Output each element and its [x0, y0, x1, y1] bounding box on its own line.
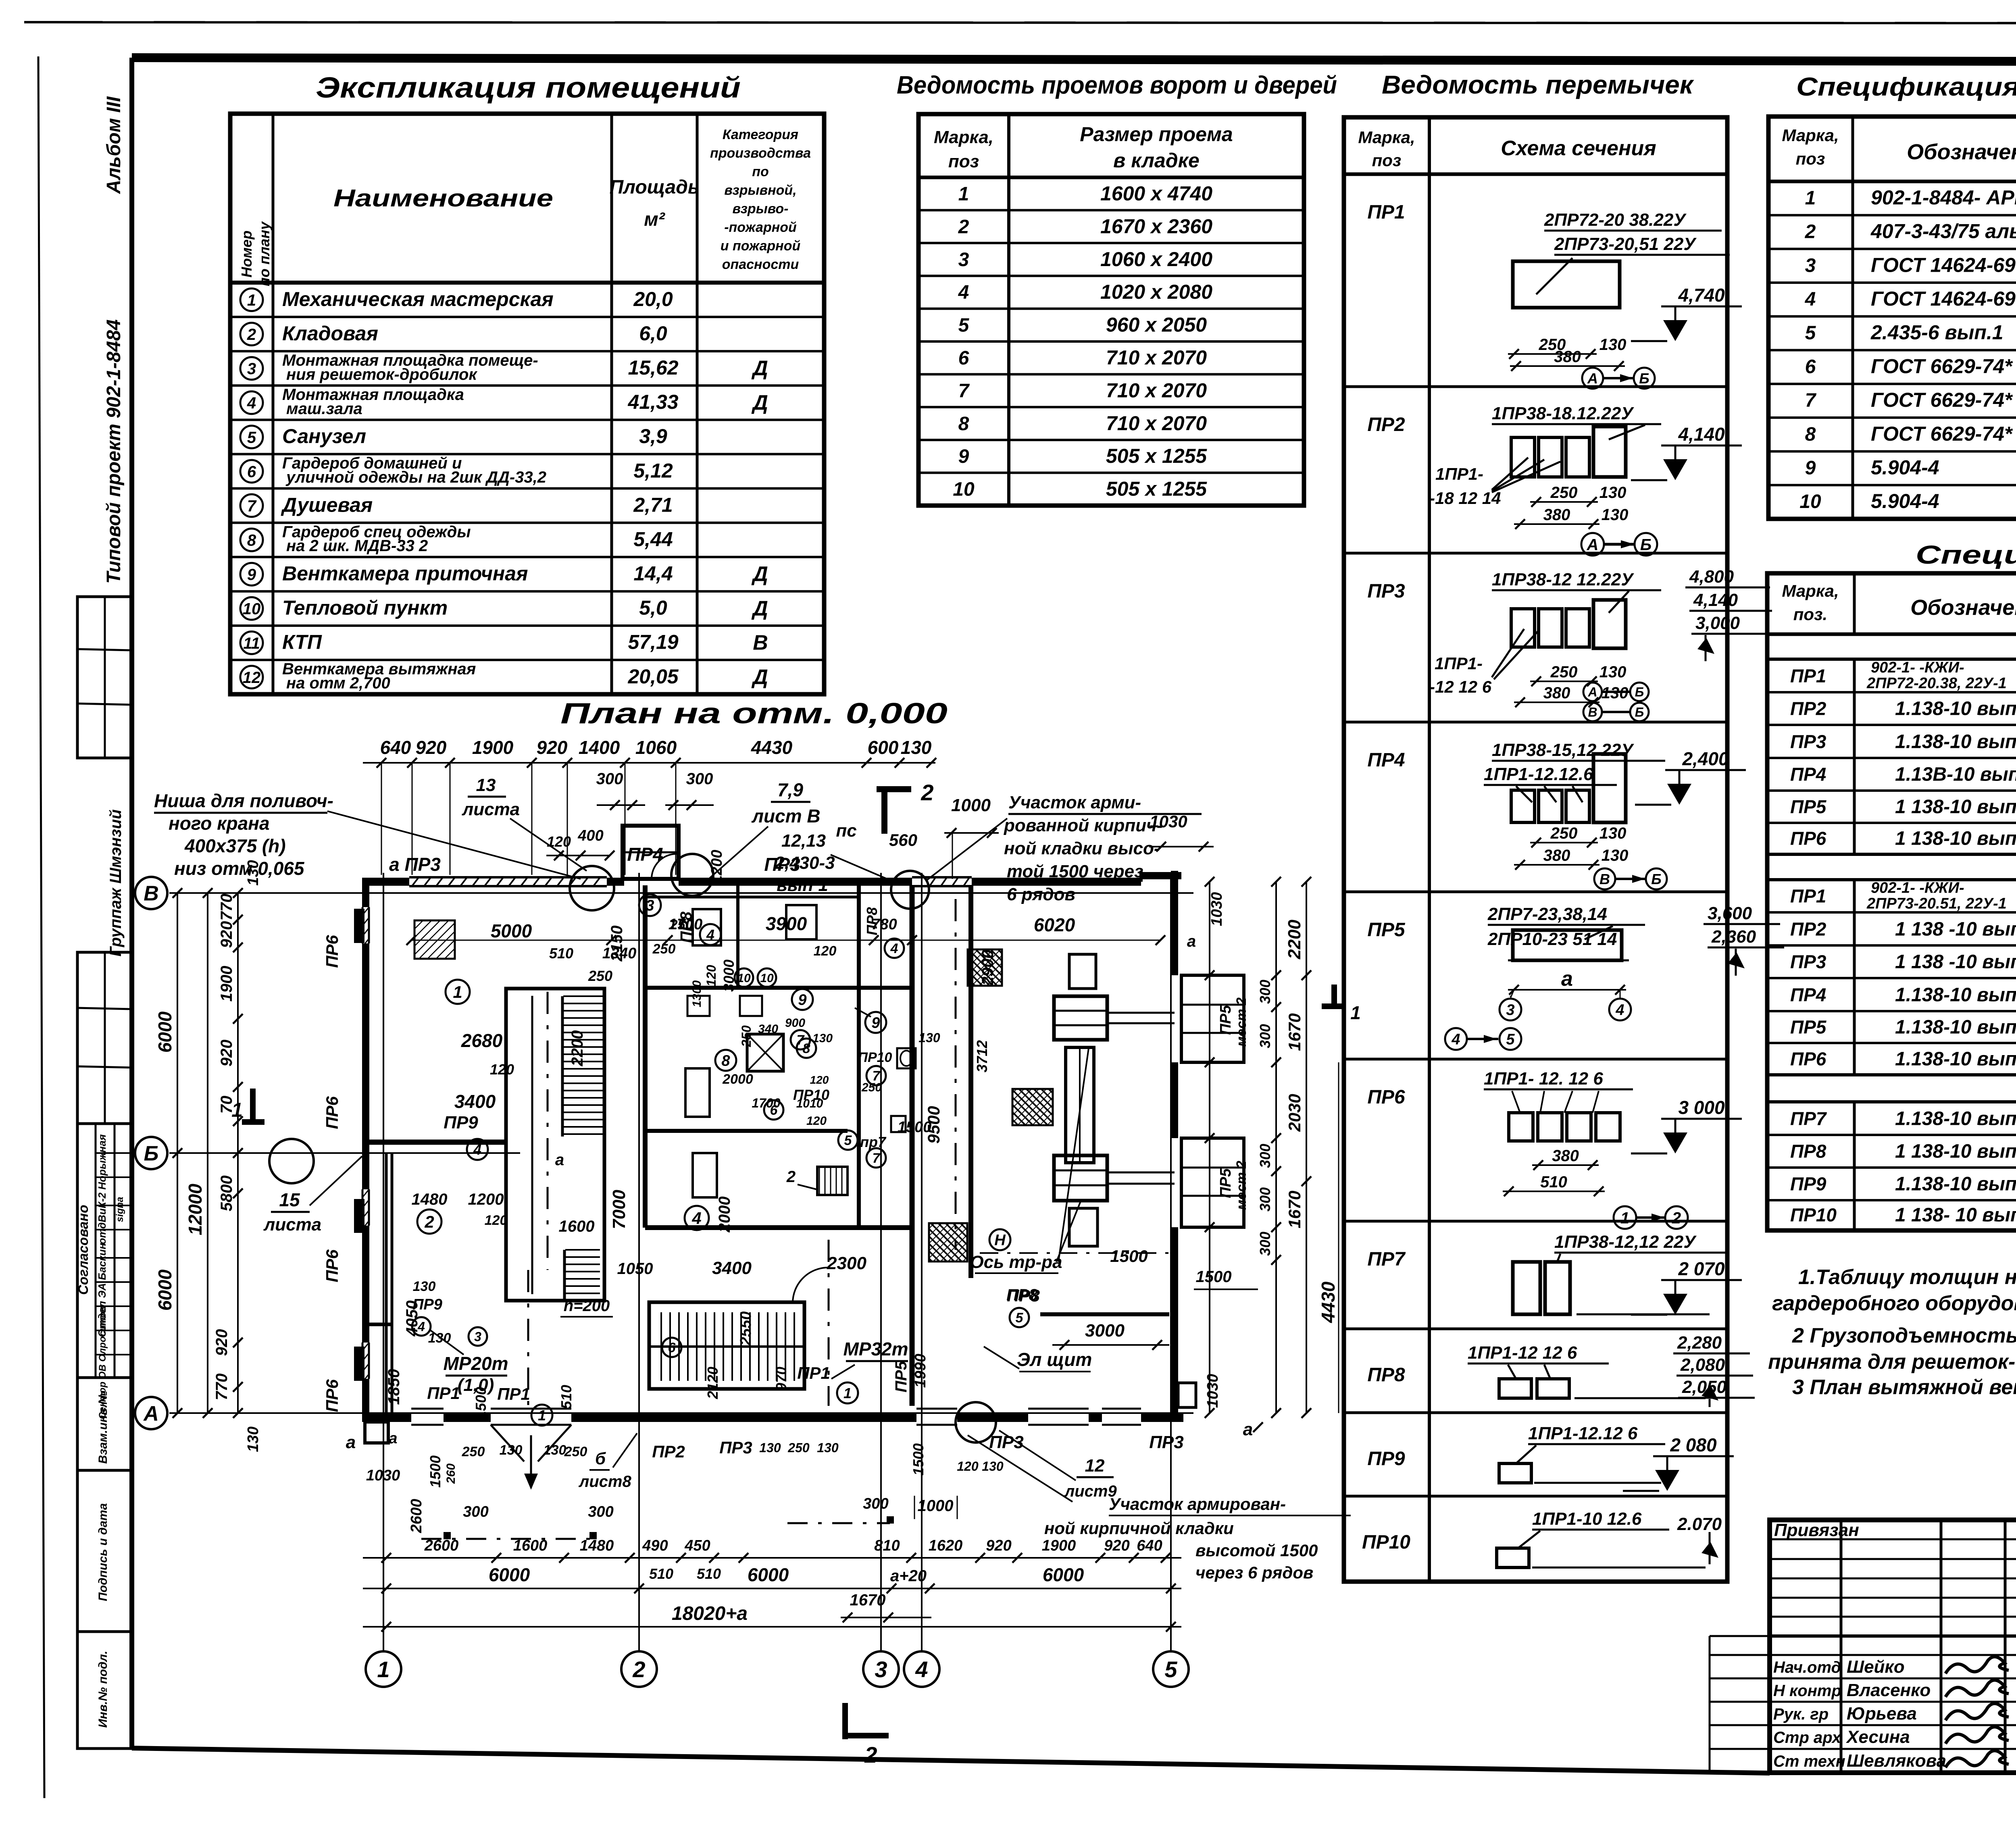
svg-text:12000: 12000 — [185, 1184, 206, 1235]
svg-text:поз.: поз. — [1793, 605, 1827, 624]
svg-text:2 Грузоподъемность монорельса,: 2 Грузоподъемность монорельса, обозначен… — [1792, 1324, 2016, 1347]
svg-text:Номер: Номер — [238, 231, 255, 278]
svg-text:ПР2: ПР2 — [652, 1442, 685, 1461]
svg-text:6000: 6000 — [489, 1564, 530, 1585]
svg-text:КТП: КТП — [282, 631, 322, 654]
svg-text:250: 250 — [1550, 824, 1578, 842]
svg-text:1500: 1500 — [427, 1455, 444, 1488]
svg-text:1: 1 — [377, 1657, 389, 1682]
svg-text:взрыво-: взрыво- — [732, 201, 788, 216]
svg-text:h=200: h=200 — [564, 1297, 610, 1315]
svg-text:Ведомость перемычек: Ведомость перемычек — [1382, 70, 1695, 99]
svg-text:1ПР38-12 12.22У: 1ПР38-12 12.22У — [1492, 570, 1634, 589]
svg-text:Б: Б — [1635, 685, 1644, 699]
svg-text:ПР9: ПР9 — [444, 1113, 478, 1132]
svg-text:1340: 1340 — [602, 945, 637, 962]
svg-text:поз: поз — [948, 152, 979, 171]
svg-text:Спецификация перемычек: Спецификация перемычек — [1916, 540, 2016, 569]
svg-text:20,0: 20,0 — [633, 288, 673, 310]
svg-text:ПР1: ПР1 — [1367, 202, 1405, 223]
svg-text:ПР9: ПР9 — [412, 1296, 442, 1313]
svg-text:Эл щит: Эл щит — [1017, 1349, 1092, 1370]
svg-text:41,33: 41,33 — [627, 391, 678, 413]
svg-text:2680: 2680 — [461, 1030, 503, 1051]
svg-text:1480: 1480 — [412, 1191, 448, 1208]
svg-text:1.138-10 вып.1: 1.138-10 вып.1 — [1895, 731, 2016, 752]
svg-text:1.138-10 вып.1: 1.138-10 вып.1 — [1895, 1048, 2016, 1070]
svg-text:ПР5: ПР5 — [1217, 1005, 1234, 1035]
svg-text:Участок арми-: Участок арми- — [1008, 793, 1141, 812]
svg-text:250: 250 — [564, 1444, 587, 1459]
svg-text:4: 4 — [417, 1320, 425, 1334]
svg-text:510: 510 — [1540, 1173, 1567, 1191]
svg-text:ПР4: ПР4 — [1367, 749, 1405, 771]
svg-text:ПР7: ПР7 — [1790, 1108, 1827, 1129]
svg-text:мест 2: мест 2 — [1234, 997, 1249, 1047]
svg-text:2ПР7-23,38,14: 2ПР7-23,38,14 — [1487, 904, 1607, 924]
svg-text:8: 8 — [721, 1053, 730, 1070]
svg-text:3,600: 3,600 — [1708, 903, 1752, 923]
svg-text:1: 1 — [843, 1385, 852, 1401]
svg-text:2,400: 2,400 — [1682, 748, 1729, 769]
svg-text:ПР3: ПР3 — [1790, 951, 1826, 972]
svg-text:Венткамера приточная: Венткамера приточная — [282, 562, 528, 585]
svg-text:1ПР1-12.12.6: 1ПР1-12.12.6 — [1484, 764, 1593, 784]
svg-text:3: 3 — [958, 249, 969, 271]
svg-text:1900: 1900 — [218, 966, 235, 1002]
svg-text:ПР9: ПР9 — [1790, 1174, 1826, 1195]
svg-text:6000: 6000 — [154, 1269, 175, 1311]
svg-text:Привязан: Привязан — [1774, 1520, 1859, 1540]
svg-text:уличной одежды на 2шк ДД-33,2: уличной одежды на 2шк ДД-33,2 — [285, 468, 546, 486]
svg-text:560: 560 — [889, 831, 917, 849]
svg-text:2: 2 — [864, 1742, 877, 1767]
svg-text:640: 640 — [1137, 1537, 1162, 1554]
svg-text:Инв.№ подл.: Инв.№ подл. — [96, 1651, 110, 1728]
svg-text:9: 9 — [958, 446, 969, 467]
svg-text:9: 9 — [247, 566, 256, 584]
svg-text:2200: 2200 — [569, 1030, 586, 1067]
svg-text:5: 5 — [1805, 323, 1816, 344]
svg-text:902-1-8484- АРИ-НД-1: 902-1-8484- АРИ-НД-1 — [1871, 186, 2016, 209]
svg-text:970: 970 — [773, 1367, 789, 1391]
svg-text:м²: м² — [644, 209, 666, 230]
svg-text:1900: 1900 — [1042, 1537, 1076, 1554]
svg-text:низ отм 0,065: низ отм 0,065 — [174, 858, 305, 879]
svg-text:11: 11 — [243, 635, 260, 652]
svg-text:450: 450 — [684, 1537, 710, 1554]
svg-text:3,9: 3,9 — [639, 425, 667, 448]
svg-text:130: 130 — [817, 1440, 839, 1455]
svg-text:2 070: 2 070 — [1678, 1258, 1725, 1279]
svg-text:4: 4 — [890, 941, 898, 956]
svg-text:Ось тр-ра: Ось тр-ра — [970, 1252, 1062, 1272]
svg-text:250: 250 — [670, 917, 693, 933]
svg-text:1: 1 — [231, 1099, 243, 1121]
svg-text:770: 770 — [213, 1374, 231, 1401]
svg-text:400х375 (h): 400х375 (h) — [184, 835, 286, 856]
svg-text:1000: 1000 — [918, 1497, 954, 1515]
svg-text:1050: 1050 — [617, 1260, 653, 1278]
svg-text:5: 5 — [247, 429, 256, 446]
svg-text:6000: 6000 — [748, 1564, 789, 1585]
svg-text:той 1500 через: той 1500 через — [1007, 862, 1143, 881]
svg-text:поз: поз — [1372, 151, 1402, 170]
svg-text:2: 2 — [424, 1212, 434, 1231]
svg-text:1600: 1600 — [513, 1537, 548, 1554]
svg-text:ПР5: ПР5 — [1217, 1168, 1234, 1198]
svg-text:1ПР1-12 12 6: 1ПР1-12 12 6 — [1468, 1343, 1577, 1363]
svg-text:Марка,: Марка, — [1782, 581, 1839, 600]
svg-text:3400: 3400 — [712, 1258, 752, 1278]
svg-text:120: 120 — [814, 943, 837, 959]
svg-text:130: 130 — [759, 1440, 781, 1455]
svg-text:18020+а: 18020+а — [672, 1603, 748, 1624]
svg-text:5.904-4: 5.904-4 — [1871, 456, 1939, 479]
svg-text:2030: 2030 — [1285, 1094, 1304, 1132]
svg-text:1500: 1500 — [473, 1387, 489, 1419]
svg-text:на отм 2,700: на отм 2,700 — [286, 674, 390, 692]
svg-text:ПР10: ПР10 — [1790, 1205, 1837, 1226]
svg-text:250: 250 — [1550, 484, 1578, 502]
svg-text:510: 510 — [549, 945, 573, 962]
svg-text:В: В — [753, 631, 768, 654]
svg-text:505 х 1255: 505 х 1255 — [1106, 478, 1207, 500]
svg-text:1: 1 — [1620, 1209, 1629, 1227]
svg-text:3900: 3900 — [766, 913, 807, 934]
svg-text:Марка,: Марка, — [1358, 128, 1415, 147]
svg-text:4: 4 — [915, 1657, 928, 1682]
svg-text:листа: листа — [263, 1215, 321, 1234]
svg-text:производства: производства — [710, 146, 811, 161]
svg-text:Б: Б — [1640, 536, 1652, 554]
svg-text:ПР7: ПР7 — [1367, 1249, 1406, 1270]
svg-text:1600: 1600 — [559, 1218, 595, 1235]
svg-text:7: 7 — [873, 1151, 881, 1166]
svg-text:407-3-43/75 альб. III: 407-3-43/75 альб. III — [1870, 220, 2016, 243]
svg-text:МР20т: МР20т — [443, 1353, 508, 1374]
svg-text:12,13: 12,13 — [781, 831, 826, 851]
svg-text:130: 130 — [1602, 847, 1629, 864]
svg-text:380: 380 — [1543, 506, 1570, 524]
svg-text:Ниша для поливоч-: Ниша для поливоч- — [154, 790, 333, 811]
svg-text:1600 х 4740: 1600 х 4740 — [1100, 182, 1212, 205]
svg-text:2ПР72-20.38, 22У-1: 2ПР72-20.38, 22У-1 — [1866, 675, 2007, 692]
svg-text:1ПР38-12,12 22У: 1ПР38-12,12 22У — [1554, 1232, 1697, 1252]
svg-text:3: 3 — [875, 1657, 887, 1682]
svg-text:300: 300 — [1257, 1144, 1273, 1168]
svg-text:Марка,: Марка, — [934, 127, 993, 147]
svg-text:920: 920 — [1104, 1537, 1129, 1554]
svg-text:2000: 2000 — [722, 1072, 753, 1087]
svg-text:3712: 3712 — [974, 1040, 990, 1072]
svg-text:1 138-10 вып 1: 1 138-10 вып 1 — [1895, 828, 2016, 849]
svg-text:1: 1 — [1805, 187, 1816, 209]
svg-text:1620: 1620 — [929, 1537, 963, 1554]
svg-text:Власенко: Власенко — [1847, 1680, 1931, 1700]
svg-text:ПР6: ПР6 — [323, 935, 342, 968]
svg-text:3: 3 — [1506, 1002, 1514, 1019]
svg-text:ПР8: ПР8 — [1006, 1286, 1038, 1304]
svg-text:340: 340 — [758, 1022, 778, 1036]
svg-text:1: 1 — [1350, 1002, 1361, 1023]
svg-text:ПР4: ПР4 — [1790, 764, 1826, 785]
svg-text:ПР3: ПР3 — [1149, 1432, 1183, 1452]
svg-text:10: 10 — [953, 479, 975, 500]
svg-text:400: 400 — [577, 827, 603, 844]
svg-text:ПР10: ПР10 — [1362, 1532, 1410, 1553]
svg-text:мест 2: мест 2 — [1234, 1161, 1249, 1210]
svg-text:380: 380 — [1543, 847, 1570, 864]
svg-text:Марка,: Марка, — [1782, 126, 1839, 145]
svg-text:300: 300 — [588, 1503, 613, 1520]
svg-text:2300: 2300 — [827, 1253, 866, 1273]
svg-text:1300: 1300 — [690, 980, 704, 1007]
svg-text:ГОСТ 6629-74*: ГОСТ 6629-74* — [1871, 423, 2013, 445]
svg-text:2550: 2550 — [737, 1311, 754, 1346]
svg-text:ПР1: ПР1 — [1790, 886, 1826, 907]
svg-text:2: 2 — [958, 216, 969, 237]
svg-text:ПР5: ПР5 — [1790, 796, 1827, 817]
svg-text:маш.зала: маш.зала — [286, 400, 362, 418]
svg-text:130: 130 — [1599, 663, 1627, 681]
svg-text:120: 120 — [547, 833, 571, 850]
svg-text:2,71: 2,71 — [633, 493, 673, 516]
svg-text:ной кирпичной кладки: ной кирпичной кладки — [1044, 1519, 1234, 1538]
svg-text:6000: 6000 — [1043, 1564, 1084, 1585]
svg-text:1030: 1030 — [1204, 1374, 1221, 1408]
svg-text:12: 12 — [1085, 1456, 1105, 1476]
svg-text:ПР3: ПР3 — [1367, 581, 1405, 602]
svg-text:В: В — [1588, 705, 1597, 720]
svg-text:6: 6 — [958, 348, 969, 369]
svg-text:В: В — [1599, 871, 1610, 887]
svg-text:130: 130 — [500, 1443, 523, 1458]
svg-text:ПР9: ПР9 — [1367, 1448, 1405, 1470]
svg-text:Н контр: Н контр — [1773, 1682, 1841, 1700]
svg-text:пс: пс — [836, 821, 856, 841]
svg-text:920: 920 — [986, 1537, 1011, 1554]
svg-text:А: А — [143, 1402, 159, 1426]
svg-text:2: 2 — [632, 1657, 645, 1682]
svg-text:взрывной,: взрывной, — [724, 183, 796, 198]
svg-text:1ПР38-18.12.22У: 1ПР38-18.12.22У — [1492, 404, 1634, 423]
svg-text:ПР1: ПР1 — [427, 1384, 460, 1403]
svg-text:Ведомость проемов ворот и двер: Ведомость проемов ворот и дверей — [897, 71, 1337, 99]
svg-text:Группаж Шмэнзий: Группаж Шмэнзий — [107, 809, 125, 956]
svg-text:-12 12 6: -12 12 6 — [1429, 677, 1492, 696]
svg-text:15: 15 — [279, 1189, 300, 1210]
svg-text:Рук. гр: Рук. гр — [1773, 1705, 1829, 1723]
svg-text:4: 4 — [247, 394, 256, 412]
svg-text:3: 3 — [1805, 255, 1816, 276]
svg-text:5: 5 — [1506, 1031, 1515, 1048]
svg-text:250: 250 — [588, 968, 612, 984]
svg-text:2,280: 2,280 — [1677, 1333, 1722, 1353]
svg-text:а+20: а+20 — [890, 1567, 927, 1585]
svg-text:1: 1 — [538, 1407, 546, 1424]
svg-text:3 000: 3 000 — [1678, 1097, 1725, 1118]
svg-text:1500: 1500 — [1110, 1247, 1148, 1266]
svg-text:в кладке: в кладке — [1113, 149, 1200, 172]
svg-text:380: 380 — [1554, 348, 1581, 366]
svg-text:4430: 4430 — [1318, 1281, 1339, 1323]
svg-text:1.138-10 вып 2: 1.138-10 вып 2 — [1895, 1016, 2016, 1038]
svg-text:1ПР38-15,12 22У: 1ПР38-15,12 22У — [1492, 740, 1634, 760]
svg-text:2: 2 — [786, 1168, 796, 1186]
svg-text:5,12: 5,12 — [633, 459, 673, 482]
svg-text:6: 6 — [668, 1340, 676, 1355]
svg-text:ПР6: ПР6 — [1790, 1048, 1826, 1069]
svg-text:гардеробного оборудования см.: гардеробного оборудования см. лист 1 — [1772, 1292, 2016, 1315]
svg-text:2,080: 2,080 — [1680, 1355, 1725, 1375]
svg-text:Взам.инв.№: Взам.инв.№ — [96, 1391, 110, 1463]
svg-text:120: 120 — [490, 1061, 514, 1078]
svg-text:ПР6: ПР6 — [1367, 1087, 1405, 1108]
svg-text:Санузел: Санузел — [282, 425, 366, 448]
svg-text:130: 130 — [544, 1443, 566, 1458]
svg-text:4: 4 — [958, 282, 969, 303]
svg-text:1670 х 2360: 1670 х 2360 — [1100, 215, 1212, 237]
svg-text:490: 490 — [642, 1537, 668, 1554]
svg-text:-18 12 14: -18 12 14 — [1429, 489, 1501, 508]
svg-text:2.435-6 вып.1: 2.435-6 вып.1 — [1870, 321, 2004, 344]
svg-text:902-1- -КЖИ-: 902-1- -КЖИ- — [1871, 659, 1964, 676]
svg-text:6020: 6020 — [1034, 914, 1075, 935]
svg-text:10: 10 — [760, 972, 774, 985]
svg-text:Схема сечения: Схема сечения — [1501, 137, 1656, 160]
svg-text:Шевлякова: Шевлякова — [1847, 1751, 1946, 1771]
svg-text:130: 130 — [901, 737, 932, 758]
svg-text:1010: 1010 — [796, 1097, 823, 1110]
svg-text:250: 250 — [787, 1440, 810, 1455]
svg-text:-пожарной: -пожарной — [724, 220, 797, 235]
svg-text:4: 4 — [691, 1209, 701, 1228]
svg-text:Механическая мастерская: Механическая мастерская — [282, 288, 554, 310]
svg-text:листа: листа — [462, 799, 520, 819]
svg-text:3000: 3000 — [1085, 1321, 1125, 1341]
svg-text:1 138 -10 вып. 1: 1 138 -10 вып. 1 — [1895, 918, 2016, 940]
svg-text:130: 130 — [1599, 824, 1627, 842]
svg-text:2ПР72-20 38.22У: 2ПР72-20 38.22У — [1544, 210, 1687, 230]
svg-text:1500: 1500 — [910, 1443, 927, 1476]
svg-text:1: 1 — [958, 183, 969, 205]
svg-text:810: 810 — [874, 1537, 900, 1554]
svg-text:300: 300 — [1257, 1232, 1273, 1256]
svg-text:Б: Б — [144, 1142, 159, 1166]
svg-text:1 138- 10 вып.1: 1 138- 10 вып.1 — [1895, 1205, 2016, 1226]
svg-text:5: 5 — [958, 315, 970, 336]
svg-text:Экспликация помещений: Экспликация помещений — [316, 72, 741, 104]
svg-text:ПР2: ПР2 — [1790, 918, 1826, 939]
svg-text:4,800: 4,800 — [1689, 567, 1734, 587]
svg-text:ПР2: ПР2 — [1367, 414, 1405, 435]
svg-text:1.138-10 вып 1: 1.138-10 вып 1 — [1895, 984, 2016, 1005]
svg-text:ПР3: ПР3 — [989, 1432, 1023, 1452]
svg-text:Шейко: Шейко — [1847, 1657, 1905, 1677]
svg-text:1.138-10 вып.1: 1.138-10 вып.1 — [1895, 698, 2016, 720]
svg-text:Обозначение: Обозначение — [1907, 140, 2016, 164]
svg-text:Хесина: Хесина — [1845, 1727, 1910, 1747]
svg-text:Д: Д — [751, 391, 768, 414]
svg-text:1020 х 2080: 1020 х 2080 — [1100, 281, 1212, 303]
svg-text:2900: 2900 — [979, 950, 997, 986]
svg-text:А: А — [1587, 536, 1599, 554]
svg-text:20,05: 20,05 — [627, 665, 679, 688]
svg-text:Д: Д — [751, 597, 768, 620]
svg-text:1480: 1480 — [580, 1537, 614, 1554]
svg-text:ПР5: ПР5 — [1367, 919, 1406, 941]
svg-text:Альбом III: Альбом III — [103, 96, 125, 194]
svg-text:120: 120 — [485, 1213, 508, 1228]
svg-text:1060: 1060 — [635, 737, 677, 758]
svg-text:Кладовая: Кладовая — [282, 322, 378, 345]
svg-text:300: 300 — [1257, 1187, 1273, 1212]
svg-text:2,360: 2,360 — [1711, 927, 1756, 947]
svg-text:ПР1: ПР1 — [797, 1363, 830, 1382]
svg-text:8: 8 — [1805, 424, 1816, 445]
svg-text:МР32т: МР32т — [843, 1338, 908, 1359]
svg-text:1.13В-10 вып.1: 1.13В-10 вып.1 — [1895, 764, 2016, 785]
svg-text:ГОСТ 14624-69: ГОСТ 14624-69 — [1871, 254, 2016, 276]
svg-text:130: 130 — [413, 1279, 436, 1294]
svg-text:5,0: 5,0 — [639, 597, 667, 619]
svg-text:120: 120 — [704, 965, 719, 987]
svg-text:120: 120 — [957, 1459, 979, 1474]
svg-text:ПР8: ПР8 — [1790, 1141, 1826, 1162]
svg-text:опасности: опасности — [722, 257, 799, 272]
svg-text:920: 920 — [537, 737, 568, 758]
svg-text:Ст техн: Ст техн — [1773, 1753, 1845, 1770]
svg-text:ПР3: ПР3 — [764, 854, 800, 875]
svg-text:1 138 -10 вып 1: 1 138 -10 вып 1 — [1895, 951, 2016, 973]
svg-text:ПР3: ПР3 — [1790, 731, 1826, 752]
svg-text:260: 260 — [444, 1463, 458, 1484]
svg-text:1ПР1- 12. 12 6: 1ПР1- 12. 12 6 — [1484, 1069, 1603, 1089]
svg-text:ПР1: ПР1 — [1790, 665, 1826, 686]
svg-text:Площадь: Площадь — [610, 177, 700, 198]
svg-text:ПР5: ПР5 — [1790, 1016, 1827, 1037]
svg-text:2: 2 — [1672, 1209, 1681, 1227]
svg-text:по: по — [752, 164, 769, 179]
svg-text:920: 920 — [416, 737, 447, 758]
svg-text:6: 6 — [1805, 356, 1816, 377]
svg-text:Подпись и дата: Подпись и дата — [96, 1503, 110, 1601]
svg-text:960 х 2050: 960 х 2050 — [1106, 314, 1207, 336]
svg-text:120: 120 — [806, 1114, 827, 1128]
svg-text:13: 13 — [476, 775, 496, 795]
svg-text:300: 300 — [596, 770, 623, 788]
svg-text:Б: Б — [1651, 871, 1662, 887]
svg-text:1ПР1-12.12 6: 1ПР1-12.12 6 — [1528, 1424, 1638, 1443]
svg-text:6000: 6000 — [154, 1011, 175, 1053]
svg-text:300: 300 — [686, 770, 713, 788]
svg-text:4: 4 — [1615, 1002, 1624, 1019]
svg-text:ного крана: ного крана — [169, 813, 270, 834]
svg-text:710 х 2070: 710 х 2070 — [1106, 379, 1207, 402]
svg-text:130: 130 — [982, 1459, 1004, 1474]
svg-text:640: 640 — [380, 737, 411, 758]
svg-text:5,44: 5,44 — [633, 528, 673, 550]
svg-text:3400: 3400 — [454, 1091, 496, 1112]
svg-text:1670: 1670 — [1285, 1013, 1304, 1051]
svg-text:510: 510 — [649, 1565, 673, 1582]
svg-text:ПР3: ПР3 — [719, 1438, 752, 1457]
svg-text:1: 1 — [453, 983, 462, 1001]
svg-text:1.Таблицу толщин наружных стен: 1.Таблицу толщин наружных стен и специфи… — [1798, 1266, 2016, 1289]
svg-text:250: 250 — [1550, 663, 1578, 681]
svg-text:ГОСТ 6629-74*: ГОСТ 6629-74* — [1871, 355, 2013, 377]
